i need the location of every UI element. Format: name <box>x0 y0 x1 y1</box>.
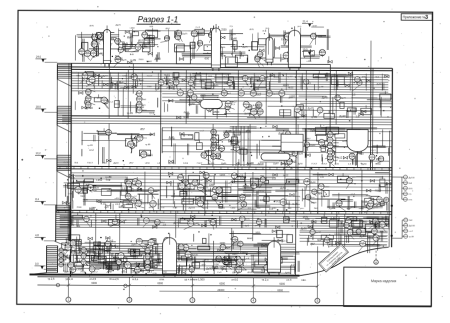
svg-text:в.15: в.15 <box>253 103 259 107</box>
svg-text:Ду80: Ду80 <box>377 83 383 85</box>
svg-text:Ду50: Ду50 <box>113 220 117 222</box>
svg-text:от.6,0: от.6,0 <box>231 277 238 281</box>
svg-text:24: 24 <box>83 251 85 253</box>
horizontal drum level mezz <box>200 99 222 119</box>
svg-text:усл.: усл. <box>334 160 338 162</box>
riser pair bottom right <box>368 236 370 254</box>
svg-text:№12: №12 <box>157 203 163 206</box>
right balloon stack upper <box>392 175 416 201</box>
column above roof mid3 <box>266 33 273 65</box>
svg-text:16: 16 <box>130 145 132 147</box>
svg-text:тр.89: тр.89 <box>105 175 112 179</box>
svg-text:2500: 2500 <box>198 197 204 200</box>
svg-text:Ду100: Ду100 <box>189 207 196 209</box>
svg-text:усл.: усл. <box>158 88 162 90</box>
right wall <box>389 68 393 247</box>
svg-text:22: 22 <box>181 187 183 189</box>
svg-text:28: 28 <box>238 271 240 273</box>
title block <box>344 267 432 307</box>
tank ground a <box>162 234 176 277</box>
svg-text:Ду80: Ду80 <box>213 85 219 87</box>
svg-text:Ø76: Ø76 <box>303 215 308 219</box>
svg-text:Ду80: Ду80 <box>107 268 113 271</box>
svg-text:Ду40: Ду40 <box>266 76 272 78</box>
svg-text:Ø57: Ø57 <box>376 159 381 161</box>
svg-text:Ду25: Ду25 <box>308 106 315 110</box>
svg-text:Ø57: Ø57 <box>140 129 145 131</box>
svg-text:Ду40: Ду40 <box>204 152 210 154</box>
label row above level2 slab <box>63 206 375 210</box>
svg-text:т.450: т.450 <box>145 163 151 165</box>
floor slab level 3 <box>57 166 392 170</box>
svg-text:3: 3 <box>191 298 193 302</box>
svg-text:т.450: т.450 <box>206 219 213 223</box>
svg-text:вент: вент <box>243 270 248 272</box>
svg-text:2,5: 2,5 <box>329 139 332 141</box>
grade curve to right wall <box>299 247 388 276</box>
svg-text:2500: 2500 <box>80 272 86 274</box>
svg-text:Ду25: Ду25 <box>225 129 232 133</box>
svg-text:ГОСТ: ГОСТ <box>274 200 281 203</box>
svg-text:2,5: 2,5 <box>234 238 237 240</box>
svg-text:№12: №12 <box>211 145 215 148</box>
svg-text:9: 9 <box>180 94 181 96</box>
svg-text:17: 17 <box>351 157 353 159</box>
svg-text:отм.: отм. <box>409 199 413 201</box>
svg-text:28: 28 <box>185 249 187 251</box>
svg-text:1200: 1200 <box>68 223 75 227</box>
svg-text:ГОСТ: ГОСТ <box>375 189 382 192</box>
svg-text:2500: 2500 <box>77 207 83 209</box>
label row above ground <box>64 272 290 275</box>
svg-text:1200: 1200 <box>301 109 307 111</box>
svg-text:1200: 1200 <box>165 78 172 82</box>
secondary floor pipes l3 <box>162 128 392 153</box>
svg-text:19,0: 19,0 <box>302 48 308 52</box>
svg-text:Ст.3: Ст.3 <box>149 241 153 243</box>
svg-text:1: 1 <box>200 205 201 207</box>
svg-text:а-а: а-а <box>84 199 88 202</box>
piping cluster band mid <box>64 212 391 232</box>
svg-text:Ду50: Ду50 <box>64 272 70 274</box>
svg-text:сл.2: сл.2 <box>226 102 230 104</box>
svg-text:Ø57: Ø57 <box>225 245 230 249</box>
svg-text:ГОСТ: ГОСТ <box>369 208 375 210</box>
svg-text:вент: вент <box>149 189 153 191</box>
svg-text:сл.2: сл.2 <box>291 161 296 163</box>
svg-text:Ду40: Ду40 <box>154 57 161 61</box>
svg-text:Ду50: Ду50 <box>189 103 195 106</box>
piping cluster level2 mid <box>167 171 299 211</box>
svg-text:№12: №12 <box>283 174 289 177</box>
piping cluster level2 right <box>302 172 391 213</box>
svg-text:2500: 2500 <box>271 272 277 274</box>
svg-text:ГОСТ: ГОСТ <box>197 163 203 165</box>
svg-text:вент: вент <box>313 26 318 28</box>
svg-text:тр.89: тр.89 <box>87 145 93 147</box>
svg-text:усл.: усл. <box>284 54 288 56</box>
svg-text:20: 20 <box>227 105 229 107</box>
svg-text:Ø57: Ø57 <box>69 263 73 265</box>
svg-text:усл.: усл. <box>298 26 302 28</box>
svg-text:отм.: отм. <box>159 278 164 281</box>
svg-text:7: 7 <box>313 37 314 39</box>
piping cluster ground mid <box>162 229 299 275</box>
svg-text:сл.2: сл.2 <box>189 187 195 191</box>
balloon row under roof <box>177 88 285 97</box>
svg-text:№4: №4 <box>71 241 74 244</box>
svg-text:Ø57: Ø57 <box>138 39 144 43</box>
svg-text:24,0: 24,0 <box>36 55 42 59</box>
svg-text:2500: 2500 <box>221 28 227 31</box>
piping cluster roof mid <box>160 25 332 67</box>
svg-text:2: 2 <box>128 298 130 302</box>
horizontal drum level3 <box>261 153 290 160</box>
svg-text:п.6: п.6 <box>371 156 374 158</box>
svg-text:Ду80: Ду80 <box>231 38 237 41</box>
svg-text:отм.: отм. <box>291 220 296 223</box>
svg-text:Ду40: Ду40 <box>333 146 339 148</box>
svg-text:11: 11 <box>138 185 140 187</box>
svg-text:Ду50: Ду50 <box>301 226 308 230</box>
svg-text:12: 12 <box>146 269 148 271</box>
svg-text:Ду40: Ду40 <box>273 93 279 95</box>
svg-text:сл.2: сл.2 <box>145 219 149 221</box>
piping cluster roof left <box>75 30 161 68</box>
svg-text:4: 4 <box>376 239 377 241</box>
svg-text:№4: №4 <box>321 195 326 199</box>
hopper level3 <box>347 130 368 168</box>
svg-text:Ду25: Ду25 <box>182 33 188 35</box>
svg-text:1200: 1200 <box>312 190 316 192</box>
svg-text:2500: 2500 <box>126 203 132 206</box>
piping cluster level3 mid <box>162 125 304 170</box>
svg-text:вент: вент <box>242 252 248 255</box>
svg-text:отм.: отм. <box>283 163 288 165</box>
svg-text:отм.: отм. <box>316 77 321 79</box>
svg-text:Ду40: Ду40 <box>84 217 88 219</box>
svg-text:11: 11 <box>60 266 62 268</box>
svg-text:17: 17 <box>72 271 74 273</box>
svg-text:усл.: усл. <box>121 41 125 43</box>
svg-text:усл.: усл. <box>352 176 357 179</box>
svg-text:усл.: усл. <box>176 272 180 274</box>
svg-text:Ду100: Ду100 <box>168 163 175 165</box>
grid bubble 2 <box>127 297 132 302</box>
riser pipes <box>96 63 363 251</box>
box above roof mid <box>225 57 237 67</box>
svg-text:ГОСТ: ГОСТ <box>312 164 318 166</box>
svg-text:27: 27 <box>285 57 287 59</box>
svg-text:ур.ч.земли 1,500: ур.ч.земли 1,500 <box>184 277 205 281</box>
svg-text:а-а: а-а <box>188 134 192 137</box>
svg-text:2,5: 2,5 <box>356 115 360 119</box>
svg-text:в.15: в.15 <box>311 230 315 232</box>
ground floor line <box>71 251 330 254</box>
svg-text:тр.89: тр.89 <box>118 48 123 50</box>
elevation mark 18,0 <box>35 105 57 112</box>
svg-text:№12: №12 <box>305 179 309 182</box>
vessel above roof right <box>288 26 300 70</box>
svg-text:Ст.3: Ст.3 <box>149 113 154 115</box>
balloon stack level3 col <box>327 132 339 161</box>
svg-text:Ду40: Ду40 <box>113 163 119 165</box>
svg-text:а-а: а-а <box>205 259 209 262</box>
svg-text:тр.57: тр.57 <box>63 207 69 209</box>
svg-text:т.450: т.450 <box>377 225 383 227</box>
svg-text:Ду50: Ду50 <box>298 164 304 166</box>
svg-text:№12: №12 <box>106 179 112 182</box>
svg-text:12: 12 <box>143 156 145 158</box>
upper mid pipes <box>118 29 392 111</box>
svg-text:т.450: т.450 <box>130 28 136 30</box>
svg-text:22: 22 <box>205 177 207 179</box>
svg-text:21: 21 <box>296 110 298 112</box>
svg-text:Ду50: Ду50 <box>126 195 130 197</box>
elevation mark 0,0 <box>35 262 57 269</box>
svg-text:Приложение №: Приложение № <box>403 15 427 19</box>
piping cluster level3 left <box>81 128 154 165</box>
svg-text:тр.89: тр.89 <box>142 33 147 35</box>
balloon stack ground left a <box>59 248 70 268</box>
elevation mark 13,2 <box>35 151 57 158</box>
svg-text:8: 8 <box>94 45 95 47</box>
svg-text:3: 3 <box>306 183 307 185</box>
label row above level3 slab <box>64 161 382 165</box>
svg-text:вент: вент <box>311 201 317 204</box>
svg-text:п.6: п.6 <box>91 78 94 80</box>
svg-text:вент: вент <box>359 208 364 210</box>
pipe cluster level3 mid <box>231 126 248 166</box>
svg-text:вент: вент <box>366 195 371 197</box>
svg-text:24000: 24000 <box>217 289 225 292</box>
svg-text:от.2,5: от.2,5 <box>89 277 96 281</box>
balloon stack level3 x213 <box>211 129 223 160</box>
svg-text:Ду100: Ду100 <box>409 225 416 227</box>
svg-text:3: 3 <box>83 263 84 265</box>
svg-text:2,5: 2,5 <box>235 240 239 244</box>
elevation mark 8,4 <box>35 197 57 204</box>
svg-text:тр.89: тр.89 <box>311 115 318 119</box>
grid bubble 1 <box>66 297 71 302</box>
svg-text:№4: №4 <box>81 194 86 198</box>
svg-text:10: 10 <box>137 205 139 207</box>
svg-text:Ду80: Ду80 <box>311 182 317 184</box>
svg-text:6000: 6000 <box>279 283 285 286</box>
svg-text:тр.57: тр.57 <box>368 202 373 204</box>
svg-text:2,5: 2,5 <box>122 187 126 190</box>
balloon stack mezz left <box>85 89 95 108</box>
svg-text:Ду80: Ду80 <box>144 44 150 46</box>
svg-text:Ду100: Ду100 <box>327 150 332 152</box>
svg-text:Ø76: Ø76 <box>193 181 197 183</box>
axis lines to bubbles <box>68 245 317 298</box>
label row under roof <box>77 75 380 79</box>
svg-text:21: 21 <box>235 149 237 151</box>
stair flight mid <box>57 155 71 178</box>
svg-text:15: 15 <box>240 94 242 96</box>
svg-text:Ст.3: Ст.3 <box>283 239 289 243</box>
interior column a <box>159 70 162 211</box>
svg-text:5: 5 <box>316 299 318 303</box>
svg-text:Ø76: Ø76 <box>150 237 155 241</box>
svg-text:в.15: в.15 <box>291 265 296 267</box>
svg-text:сл.2: сл.2 <box>115 203 120 206</box>
svg-text:3: 3 <box>320 111 321 113</box>
piping cluster mezz left <box>75 92 157 116</box>
svg-text:тр.89: тр.89 <box>130 59 137 62</box>
svg-text:Ду100: Ду100 <box>208 163 215 165</box>
svg-text:1: 1 <box>246 106 247 108</box>
svg-text:21,4: 21,4 <box>303 20 309 24</box>
svg-text:ГОСТ: ГОСТ <box>135 134 142 138</box>
svg-text:23: 23 <box>137 48 139 50</box>
svg-text:10: 10 <box>86 55 88 57</box>
svg-text:Ø57: Ø57 <box>310 244 315 246</box>
title Razrez 1-1 <box>137 15 181 24</box>
svg-text:1200: 1200 <box>74 251 81 255</box>
svg-text:Ст.3: Ст.3 <box>200 93 206 97</box>
tank ground b <box>267 237 280 275</box>
svg-text:1200: 1200 <box>209 185 215 187</box>
secondary ground pipes <box>75 230 388 270</box>
svg-text:вент: вент <box>110 241 116 244</box>
svg-text:ур.2,м: ур.2,м <box>65 277 73 281</box>
svg-text:усл.: усл. <box>266 28 270 30</box>
svg-text:Ст.3: Ст.3 <box>155 222 160 225</box>
secondary floor pipes l2 <box>71 173 392 208</box>
svg-text:3: 3 <box>127 266 128 268</box>
dimension texts <box>91 282 285 292</box>
svg-text:3: 3 <box>117 61 118 63</box>
svg-text:тр.57: тр.57 <box>247 163 253 165</box>
column above roof mid2 <box>211 24 220 71</box>
svg-text:п.6: п.6 <box>237 244 241 248</box>
svg-text:13,2: 13,2 <box>36 151 42 155</box>
svg-text:1200: 1200 <box>112 132 118 134</box>
svg-text:Ду80: Ду80 <box>310 145 316 147</box>
svg-text:Ст.3: Ст.3 <box>258 53 262 55</box>
svg-text:3: 3 <box>425 15 428 21</box>
svg-text:Ду100: Ду100 <box>116 59 123 61</box>
piping cluster under roof <box>80 70 389 92</box>
elevation mark 4,8 <box>35 233 57 240</box>
ground floor pipe band <box>60 215 390 228</box>
svg-text:19: 19 <box>227 108 229 110</box>
svg-text:21: 21 <box>81 53 83 55</box>
svg-text:11: 11 <box>87 100 89 102</box>
svg-text:тр.89: тр.89 <box>318 86 324 88</box>
svg-text:28: 28 <box>223 94 225 96</box>
svg-text:тр.89: тр.89 <box>145 144 151 146</box>
svg-text:2: 2 <box>287 38 288 40</box>
svg-text:Ø76: Ø76 <box>65 238 70 241</box>
svg-text:вент: вент <box>255 178 261 181</box>
svg-text:2: 2 <box>134 78 135 80</box>
svg-text:тр.57: тр.57 <box>244 103 249 105</box>
svg-text:600: 600 <box>127 182 130 184</box>
svg-text:Ду50: Ду50 <box>240 176 247 180</box>
svg-text:23: 23 <box>239 263 241 265</box>
svg-text:ГОСТ: ГОСТ <box>147 76 153 78</box>
piping cluster level3 right <box>302 124 389 166</box>
svg-text:1200: 1200 <box>220 242 226 245</box>
svg-text:т.450: т.450 <box>151 251 157 253</box>
svg-text:№12: №12 <box>242 202 246 205</box>
svg-text:усл.: усл. <box>151 256 155 258</box>
piping cluster ground left <box>62 236 160 277</box>
svg-text:1: 1 <box>67 298 69 302</box>
svg-text:тр.57: тр.57 <box>210 176 216 178</box>
svg-text:усл.: усл. <box>300 208 304 210</box>
svg-text:4,8: 4,8 <box>35 233 39 237</box>
svg-text:вент: вент <box>92 190 98 193</box>
svg-text:4: 4 <box>93 54 94 56</box>
svg-text:а-а: а-а <box>380 230 384 233</box>
svg-text:вент: вент <box>333 141 339 144</box>
svg-text:6000: 6000 <box>219 282 225 285</box>
svg-text:1200: 1200 <box>122 76 128 78</box>
svg-text:2500: 2500 <box>274 76 280 79</box>
svg-text:ГОСТ: ГОСТ <box>327 77 333 79</box>
svg-text:5: 5 <box>139 243 140 245</box>
balloon stack ground left b <box>145 248 157 271</box>
svg-text:в.2,о: в.2,о <box>132 277 138 281</box>
svg-text:т.450: т.450 <box>230 208 236 210</box>
svg-text:Ду50: Ду50 <box>206 267 213 271</box>
svg-text:тр.57: тр.57 <box>231 102 237 104</box>
svg-text:10: 10 <box>268 94 270 96</box>
svg-text:1200: 1200 <box>333 157 339 159</box>
piping cluster ground right <box>301 217 387 253</box>
svg-text:Ду80: Ду80 <box>76 188 80 190</box>
svg-text:0,0: 0,0 <box>35 262 39 266</box>
svg-text:т.450: т.450 <box>241 76 247 78</box>
svg-text:Ду100: Ду100 <box>329 208 336 210</box>
svg-text:4: 4 <box>234 177 235 179</box>
svg-text:а-а: а-а <box>130 53 134 56</box>
svg-text:п.6: п.6 <box>378 198 381 200</box>
svg-text:вент: вент <box>305 143 309 145</box>
svg-text:т.450: т.450 <box>91 52 95 54</box>
vessel above roof mid <box>176 46 190 64</box>
piping cluster mezz mid <box>164 90 391 120</box>
svg-text:сл.2: сл.2 <box>89 150 94 152</box>
svg-text:18,0: 18,0 <box>36 105 42 109</box>
svg-text:Ду40: Ду40 <box>339 114 346 118</box>
svg-text:Ст.3: Ст.3 <box>281 37 287 41</box>
svg-text:усл.: усл. <box>256 231 261 234</box>
svg-text:усл.: усл. <box>350 207 355 209</box>
svg-text:тн.2,о: тн.2,о <box>261 278 269 282</box>
pump ground right <box>353 228 366 235</box>
svg-text:тр.89: тр.89 <box>317 36 323 38</box>
svg-text:вент: вент <box>91 207 96 209</box>
stair flight upper <box>57 106 71 132</box>
svg-text:Ду50: Ду50 <box>124 50 130 52</box>
svg-text:Ду40: Ду40 <box>273 163 279 165</box>
svg-text:Ду50: Ду50 <box>107 272 113 274</box>
svg-text:Ду80: Ду80 <box>285 272 291 274</box>
svg-text:18: 18 <box>87 106 89 108</box>
svg-text:Ду25: Ду25 <box>242 47 248 49</box>
svg-text:№12: №12 <box>258 189 265 193</box>
grid bubble A <box>374 237 379 265</box>
svg-text:т.450: т.450 <box>121 272 127 274</box>
svg-text:6: 6 <box>89 83 90 85</box>
svg-text:отм.: отм. <box>360 220 366 223</box>
svg-text:тр.57: тр.57 <box>287 76 293 78</box>
